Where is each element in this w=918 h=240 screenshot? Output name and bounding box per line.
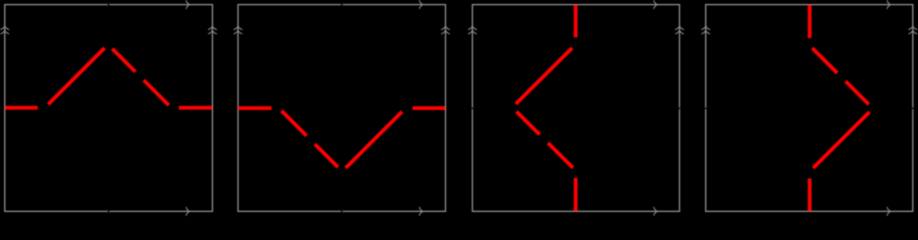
panel 1 (peak up) red dashed curve segment 5 [179,106,213,110]
panel 1 (peak up) red dashed curve segment 1 [5,106,38,110]
panel 4 (peak right) red dashed curve segment 5 [808,5,812,39]
panel 4 (peak right) red dashed curve segment 3 [846,81,869,104]
panel 2 (valley down) identification arrow on top edge [419,0,423,9]
panel 2 (valley down) red dashed curve segment 2 [346,112,402,168]
panel 1 (peak up) red dashed curve segment 2 [48,48,104,104]
panel 2 (valley down) red dashed curve segment 3 [315,144,338,167]
panel 3 (peak left) red dashed curve segment 4 [548,143,573,168]
panel 1 (peak up) midpoint mark on bottom edge [107,210,109,212]
panel 4 (peak right) red dashed curve segment 2 [813,112,869,168]
panel 3 (peak left) midpoint mark on left edge [471,107,473,109]
panel 2 (valley down) red dashed curve segment 1 [413,106,446,110]
panel 4 (peak right) identification arrow on top edge [887,0,891,9]
panel 1 (peak up) border square [5,5,213,212]
panel 3 (peak left) red dashed curve segment 2 [516,48,572,104]
panel 2 (valley down) border square [238,5,446,212]
panel 3 (peak left) border square [472,5,679,212]
panel 4 (peak right) border square [706,5,913,212]
panel 2 (valley down) red dashed curve segment 4 [282,111,307,136]
panel 1 (peak up) red dashed curve segment 4 [144,80,169,105]
panel 1 (peak up) double-arrow identification marks on left edge [0,26,9,30]
panel 3 (peak left) red dashed curve segment 1 [574,5,578,38]
panel 2 (valley down) double-arrow identification marks on right edge [441,26,450,30]
panel 3 (peak left) identification arrow on top edge [654,0,658,9]
panel 3 (peak left) red dashed curve segment 3 [517,112,540,135]
panel 2 (valley down) double-arrow identification marks on left edge [234,26,243,30]
panel 4 (peak right) midpoint mark on right edge [912,107,914,109]
panel 4 (peak right) red dashed curve segment 1 [808,179,812,212]
panel 3 (peak left) identification arrow on bottom edge [654,207,658,216]
panel 4 (peak right) midpoint mark on left edge [705,107,707,109]
panel 2 (valley down) red dashed curve segment 5 [238,106,272,110]
panel 2 (valley down) identification arrow on bottom edge [419,207,423,216]
panel 2 (valley down) midpoint mark on bottom edge [341,210,343,212]
panel 1 (peak up) double-arrow identification marks on right edge [208,26,217,30]
panel 4 (peak right) double-arrow identification marks on left edge [701,26,710,30]
panel 4 (peak right) red dashed curve segment 4 [812,48,837,73]
panel 3 (peak left) midpoint mark on right edge [678,107,680,109]
panel 1 (peak up) midpoint mark on top edge [107,3,109,5]
panel 1 (peak up) identification arrow on top edge [186,0,190,9]
panel 3 (peak left) red dashed curve segment 5 [574,178,578,212]
panel 3 (peak left) double-arrow identification marks on right edge [675,26,684,30]
panel 4 (peak right) double-arrow identification marks on right edge [908,26,917,30]
panel 4 (peak right) identification arrow on bottom edge [887,207,891,216]
panel 1 (peak up) identification arrow on bottom edge [186,207,190,216]
panel 1 (peak up) red dashed curve segment 3 [112,49,135,72]
panel 3 (peak left) double-arrow identification marks on left edge [468,26,477,30]
panel 2 (valley down) midpoint mark on top edge [341,3,343,5]
